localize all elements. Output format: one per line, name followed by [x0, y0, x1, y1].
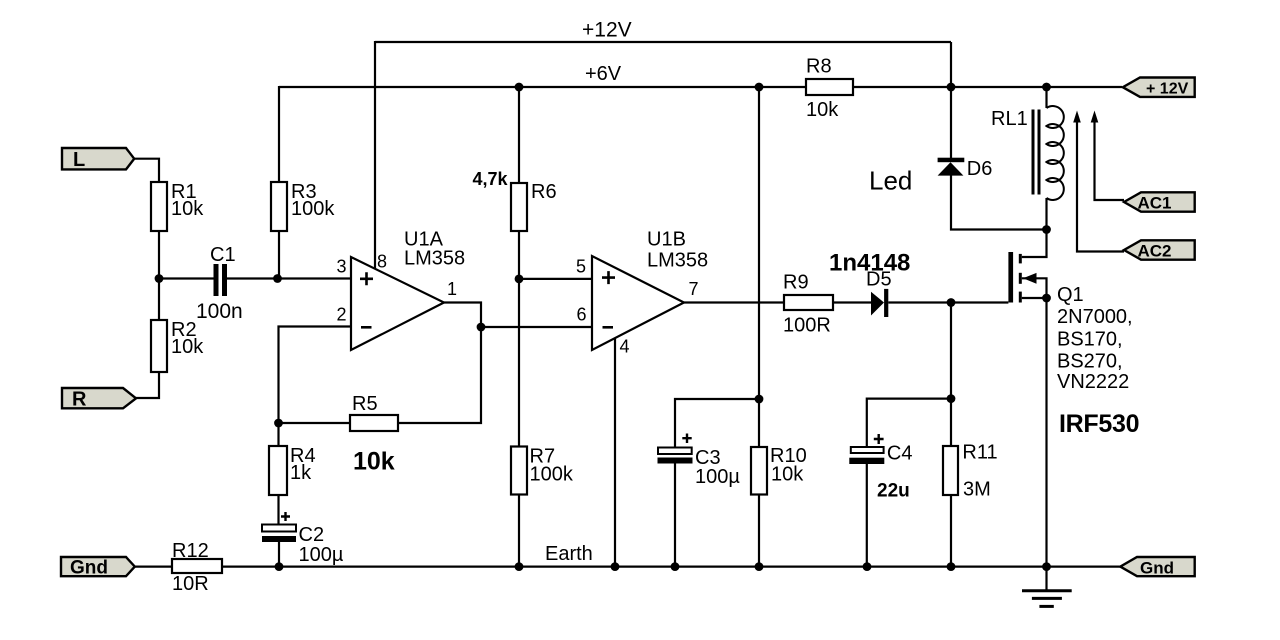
svg-text:U1B: U1B	[647, 229, 686, 251]
svg-text:AC2: AC2	[1138, 242, 1172, 261]
svg-text:Earth: Earth	[545, 543, 593, 565]
svg-text:5: 5	[576, 257, 586, 277]
svg-text:IRF530: IRF530	[1059, 410, 1139, 438]
svg-text:10k: 10k	[771, 464, 804, 486]
svg-text:100k: 100k	[530, 464, 574, 486]
svg-text:100µ: 100µ	[299, 544, 344, 566]
svg-text:LM358: LM358	[404, 248, 465, 270]
svg-text:Gnd: Gnd	[70, 558, 108, 579]
svg-text:7: 7	[689, 279, 699, 299]
svg-text:22u: 22u	[877, 481, 910, 502]
svg-text:2: 2	[337, 305, 347, 325]
svg-text:R11: R11	[962, 442, 997, 464]
svg-text:AC1: AC1	[1138, 194, 1172, 213]
svg-text:R12: R12	[172, 540, 209, 562]
svg-text:C4: C4	[887, 443, 913, 465]
svg-text:3: 3	[337, 257, 347, 277]
svg-text:1n4148: 1n4148	[829, 250, 910, 277]
svg-text:1: 1	[447, 279, 457, 299]
svg-text:Led: Led	[869, 166, 912, 196]
svg-text:RL1: RL1	[991, 108, 1028, 130]
svg-text:4: 4	[620, 337, 630, 357]
svg-text:1k: 1k	[290, 462, 312, 484]
svg-text:+12V: +12V	[582, 19, 632, 42]
svg-text:2N7000,: 2N7000,	[1057, 306, 1133, 328]
svg-text:10k: 10k	[171, 198, 204, 220]
svg-text:100k: 100k	[291, 198, 335, 220]
svg-text:+6V: +6V	[585, 63, 622, 85]
svg-text:R9: R9	[783, 272, 809, 294]
svg-text:LM358: LM358	[647, 250, 708, 272]
svg-text:L: L	[73, 149, 85, 171]
svg-text:4,7k: 4,7k	[473, 169, 509, 189]
svg-text:100R: 100R	[783, 315, 831, 337]
svg-text:10k: 10k	[171, 336, 204, 358]
svg-text:Gnd: Gnd	[1140, 559, 1174, 578]
svg-text:C1: C1	[210, 244, 236, 266]
svg-text:100n: 100n	[196, 300, 243, 323]
svg-text:8: 8	[377, 252, 387, 272]
svg-text:+ 12V: + 12V	[1146, 81, 1189, 98]
svg-text:100µ: 100µ	[695, 466, 740, 488]
svg-text:R8: R8	[806, 56, 832, 78]
svg-text:D6: D6	[967, 158, 993, 180]
svg-text:VN2222: VN2222	[1057, 371, 1129, 393]
svg-text:R5: R5	[352, 393, 378, 415]
svg-text:10k: 10k	[353, 448, 395, 476]
svg-text:10k: 10k	[806, 99, 839, 121]
svg-text:C2: C2	[299, 524, 325, 546]
svg-text:BS170,: BS170,	[1057, 329, 1123, 351]
svg-text:3M: 3M	[963, 479, 991, 501]
svg-text:Q1: Q1	[1057, 284, 1084, 306]
svg-text:6: 6	[577, 305, 587, 325]
svg-text:R6: R6	[531, 181, 557, 203]
svg-text:BS270,: BS270,	[1057, 351, 1123, 373]
svg-text:R: R	[72, 389, 87, 411]
svg-text:10R: 10R	[172, 573, 209, 595]
